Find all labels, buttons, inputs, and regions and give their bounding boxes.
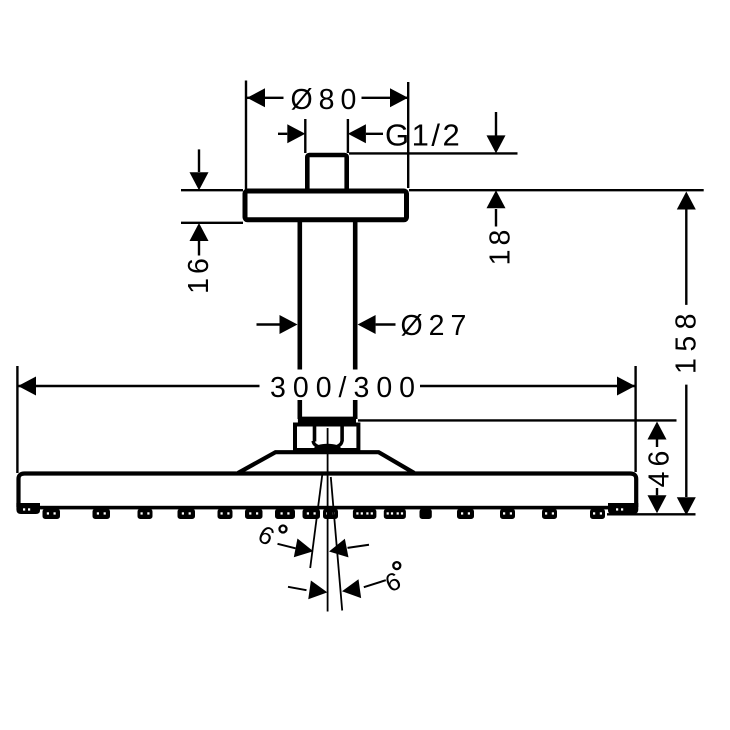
nut top level line	[358, 419, 677, 421]
dim Ø80 arrow left	[247, 88, 265, 107]
angle arrow lower-left	[288, 587, 307, 590]
svg-text:Ø27: Ø27	[401, 310, 473, 342]
ceiling flange plate	[245, 191, 407, 220]
pipe left wall	[297, 222, 302, 419]
right corner foot	[608, 503, 638, 514]
dim 300/300 ext line right	[634, 366, 636, 472]
dim Ø80 line	[247, 97, 408, 99]
angle arrow upper-left	[278, 544, 296, 549]
nozzle face dots	[23, 508, 623, 514]
dim 158 line top	[685, 210, 687, 305]
svg-text:300/300: 300/300	[270, 372, 422, 404]
flange top level line left	[181, 189, 243, 191]
nozzle feet row	[43, 509, 606, 519]
dim 18 down arrow	[495, 112, 497, 136]
dim 16 down arrow	[198, 149, 200, 172]
flange bottom level line left	[181, 222, 243, 224]
nut top bar	[298, 418, 356, 427]
dim G1/2 arrow left	[278, 133, 287, 135]
dim Ø80 ext line right	[407, 82, 409, 188]
shower head plate	[19, 474, 637, 508]
dim 18 up arrow	[495, 209, 497, 227]
pipe right wall	[353, 222, 358, 419]
dim 300/300 arrow right	[617, 377, 635, 396]
svg-text:18: 18	[485, 226, 517, 266]
dim 300/300 arrow left	[18, 377, 36, 396]
shower head bottom line	[19, 506, 635, 510]
svg-text:Ø80: Ø80	[291, 84, 363, 116]
ball joint cup arc	[313, 441, 342, 449]
dim Ø80 ext line left	[245, 81, 247, 191]
ball joint inner walls	[315, 425, 343, 442]
dim G1/2 arrow right	[366, 133, 383, 135]
mount cone trapezoid	[238, 452, 414, 473]
spray line right 6deg	[331, 477, 342, 611]
angle arrow lower-right	[364, 580, 386, 587]
dim 46 up arrow	[648, 422, 667, 440]
svg-text:46: 46	[644, 446, 676, 488]
bottom level line	[607, 513, 696, 515]
dim 16 up arrow	[198, 241, 200, 256]
pipe end line	[301, 417, 353, 419]
left corner foot	[16, 503, 40, 514]
spray center line	[327, 428, 329, 612]
dim 46 down arrow	[656, 488, 658, 495]
dim 300/300 ext line left	[16, 366, 18, 473]
dim G1/2 ext line left	[304, 119, 306, 153]
thread top level line	[349, 152, 518, 154]
dim Ø80 arrow right	[390, 88, 408, 107]
svg-text:158: 158	[671, 307, 703, 374]
spray line left 6deg	[310, 475, 322, 569]
thread connector G1/2	[307, 155, 346, 191]
dim Ø27 arrow left	[257, 323, 280, 325]
svg-text:16: 16	[183, 254, 215, 294]
ball joint dark lens	[314, 444, 340, 452]
nut body	[295, 425, 358, 451]
svg-text:G1/2: G1/2	[385, 118, 462, 153]
dim Ø27 arrow right	[376, 323, 396, 325]
dim 158 line bottom	[685, 385, 687, 497]
dim G1/2 ext line right	[347, 119, 349, 153]
angle arrow upper-right	[348, 545, 370, 548]
flange top level line right	[409, 189, 704, 191]
dim 300/300 line	[18, 385, 635, 387]
